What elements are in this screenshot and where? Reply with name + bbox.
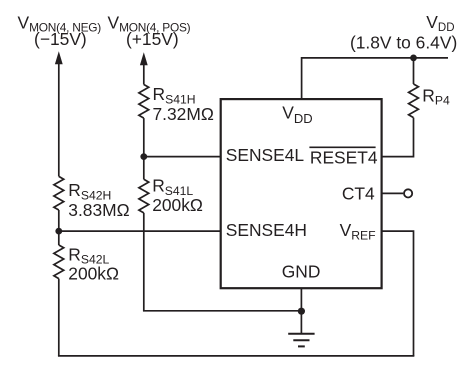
svg-text:200kΩ: 200kΩ [68, 264, 119, 284]
svg-text:3.83MΩ: 3.83MΩ [68, 200, 129, 220]
svg-text:SENSE4L: SENSE4L [226, 145, 305, 165]
svg-text:GND: GND [282, 262, 321, 282]
svg-text:7.32MΩ: 7.32MΩ [153, 104, 214, 124]
svg-text:CT4: CT4 [342, 183, 375, 203]
svg-text:VDD: VDD [426, 12, 454, 34]
svg-text:200kΩ: 200kΩ [152, 195, 203, 215]
svg-text:(1.8V to 6.4V): (1.8V to 6.4V) [350, 32, 457, 52]
svg-text:(+15V): (+15V) [126, 29, 179, 49]
svg-text:VREF: VREF [340, 220, 376, 243]
svg-text:VDD: VDD [282, 102, 312, 126]
svg-text:RESET4: RESET4 [310, 148, 378, 168]
svg-text:RP4: RP4 [422, 86, 450, 108]
svg-text:SENSE4H: SENSE4H [226, 220, 307, 240]
svg-text:(−15V): (−15V) [34, 29, 87, 49]
